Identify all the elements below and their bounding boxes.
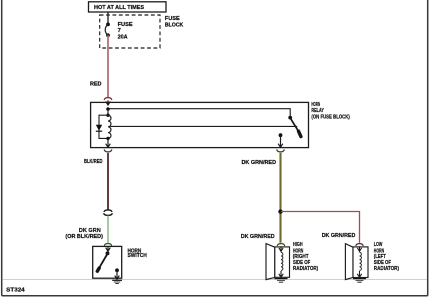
svg-text:DK GRN/RED: DK GRN/RED	[322, 233, 356, 239]
horn switch box	[93, 246, 122, 278]
wire DK GRN (connector to horn switch)	[107, 216, 109, 243]
diode branch wiring	[99, 115, 108, 138]
svg-text:SIDE OF: SIDE OF	[293, 260, 311, 266]
relay bottom-right pin with arrow	[278, 135, 283, 147]
svg-text:DK GRN/RED: DK GRN/RED	[242, 160, 277, 166]
low horn pin arrow	[357, 246, 361, 251]
node: relay input junction	[106, 107, 110, 111]
power source label: HOT AT ALL TIMES	[89, 2, 167, 12]
connector at high horn pin	[277, 244, 284, 246]
inline connector (BLK/RED to DK GRN)	[104, 210, 113, 216]
svg-text:LOW: LOW	[374, 242, 383, 248]
horn switch pin (arrow into box)	[106, 246, 111, 251]
low horn body (flare)	[345, 244, 353, 280]
svg-text:DK GRN: DK GRN	[79, 228, 101, 234]
wire BLK/RED (relay to connector)	[107, 153, 109, 210]
label: LOW HORN (LEFT SIDE OF RADIATOR)	[374, 242, 399, 272]
wire label: DK GRN (OR BLK/RED)	[65, 228, 103, 240]
svg-text:FUSE: FUSE	[165, 16, 180, 22]
svg-text:(OR BLK/RED): (OR BLK/RED)	[65, 234, 103, 240]
connector below relay left pin	[104, 149, 112, 152]
wire RED (fuse to relay)	[107, 35, 109, 97]
fuse block (dashed outline)	[100, 15, 160, 48]
relay bottom-left pin with arrow	[106, 138, 111, 147]
high horn pin arrow	[279, 246, 283, 251]
svg-text:(ON FUSE BLOCK): (ON FUSE BLOCK)	[311, 114, 349, 120]
relay top pin (male arrow into box)	[106, 100, 111, 105]
high horn body (can)	[275, 247, 290, 277]
low horn coil	[360, 252, 362, 270]
wire: coil feed down	[107, 109, 109, 115]
svg-text:RADIATOR): RADIATOR)	[293, 266, 318, 272]
low horn body (can)	[353, 247, 368, 278]
label: FUSE BLOCK	[165, 16, 184, 28]
horn relay box	[91, 102, 309, 147]
node: relay contact pivot	[288, 116, 292, 120]
wire: relay internal top rail	[108, 109, 290, 117]
horn switch blade	[97, 251, 109, 271]
svg-text:BLK/RED: BLK/RED	[84, 159, 103, 165]
node: relay output dot	[279, 133, 283, 137]
label: HORN SWITCH	[128, 248, 147, 259]
svg-text:RADIATOR): RADIATOR)	[374, 266, 399, 272]
svg-text:FUSE: FUSE	[118, 22, 133, 28]
node: coil bottom	[106, 137, 109, 140]
svg-text:SIDE OF: SIDE OF	[374, 260, 392, 266]
label: HORN RELAY (ON FUSE BLOCK)	[311, 102, 349, 120]
wire: switch terminal to ground	[115, 270, 120, 279]
svg-text:7: 7	[118, 28, 121, 34]
diode (across relay coil)	[96, 125, 102, 131]
svg-text:HIGH: HIGH	[293, 242, 303, 248]
ground (low horn)	[353, 279, 366, 283]
node: coil top	[106, 114, 109, 117]
svg-text:RED: RED	[90, 81, 102, 87]
connector at low horn pin	[356, 244, 363, 246]
relay contact blade (switch)	[290, 118, 301, 136]
svg-text:ST324: ST324	[6, 287, 25, 293]
ground (horn switch)	[112, 280, 122, 283]
ground (high horn)	[275, 279, 288, 283]
wire branch to low horn	[281, 212, 360, 243]
connector below relay right pin	[277, 149, 285, 152]
high horn body (flare)	[266, 244, 275, 280]
wire DK GRN/RED (relay to junction and high horn)	[279, 153, 281, 243]
high horn coil-to-ground arrow	[279, 271, 283, 277]
svg-text:SWITCH: SWITCH	[128, 253, 147, 259]
svg-text:BLOCK: BLOCK	[165, 22, 184, 28]
relay coil	[108, 115, 111, 138]
svg-text:DK GRN/RED: DK GRN/RED	[241, 234, 275, 240]
label: HIGH HORN (RIGHT SIDE OF RADIATOR)	[293, 242, 319, 272]
connector at horn switch pin	[104, 244, 111, 246]
low horn coil-to-ground arrow	[357, 271, 361, 277]
fuse 7 20A	[105, 22, 132, 41]
connector at relay top pin	[104, 98, 112, 100]
wire: relay internal middle rail	[110, 125, 297, 127]
high horn coil	[281, 252, 283, 270]
svg-text:RELAY: RELAY	[311, 108, 324, 114]
node: horn switch ground terminal	[115, 268, 119, 272]
svg-text:20A: 20A	[118, 34, 129, 40]
wire from power label into fuse block	[107, 12, 109, 24]
node: horn feed junction	[278, 209, 282, 213]
svg-text:HOT AT ALL TIMES: HOT AT ALL TIMES	[94, 5, 144, 11]
